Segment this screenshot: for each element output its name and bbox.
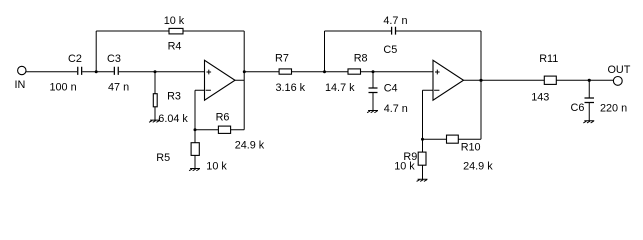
svg-text:C2: C2 [68, 53, 82, 65]
svg-text:R10: R10 [461, 141, 481, 153]
svg-text:10 k: 10 k [394, 161, 415, 173]
svg-text:C6: C6 [571, 102, 585, 114]
svg-text:24.9 k: 24.9 k [235, 140, 265, 152]
svg-text:R6: R6 [216, 111, 230, 123]
svg-text:C3: C3 [107, 53, 121, 65]
svg-text:10 k: 10 k [164, 15, 185, 27]
svg-text:4.7 n: 4.7 n [384, 103, 408, 115]
svg-text:47 n: 47 n [108, 81, 129, 93]
svg-text:14.7 k: 14.7 k [325, 82, 355, 94]
svg-text:24.9 k: 24.9 k [463, 161, 493, 173]
svg-text:143: 143 [531, 92, 549, 104]
svg-text:100 n: 100 n [50, 81, 77, 93]
svg-text:R7: R7 [275, 53, 289, 65]
svg-text:C4: C4 [384, 82, 398, 94]
svg-text:220 n: 220 n [600, 102, 627, 114]
svg-text:R3: R3 [167, 91, 181, 103]
svg-text:R11: R11 [539, 53, 558, 65]
svg-text:6.04 k: 6.04 k [158, 113, 188, 125]
svg-text:C5: C5 [383, 44, 397, 56]
svg-text:R4: R4 [168, 41, 182, 53]
svg-text:3.16 k: 3.16 k [276, 82, 306, 94]
svg-text:IN: IN [15, 79, 26, 91]
svg-text:OUT: OUT [608, 64, 631, 76]
svg-text:R8: R8 [354, 53, 368, 65]
svg-text:10 k: 10 k [206, 161, 227, 173]
svg-text:4.7 n: 4.7 n [383, 15, 407, 27]
svg-text:R5: R5 [156, 152, 170, 164]
